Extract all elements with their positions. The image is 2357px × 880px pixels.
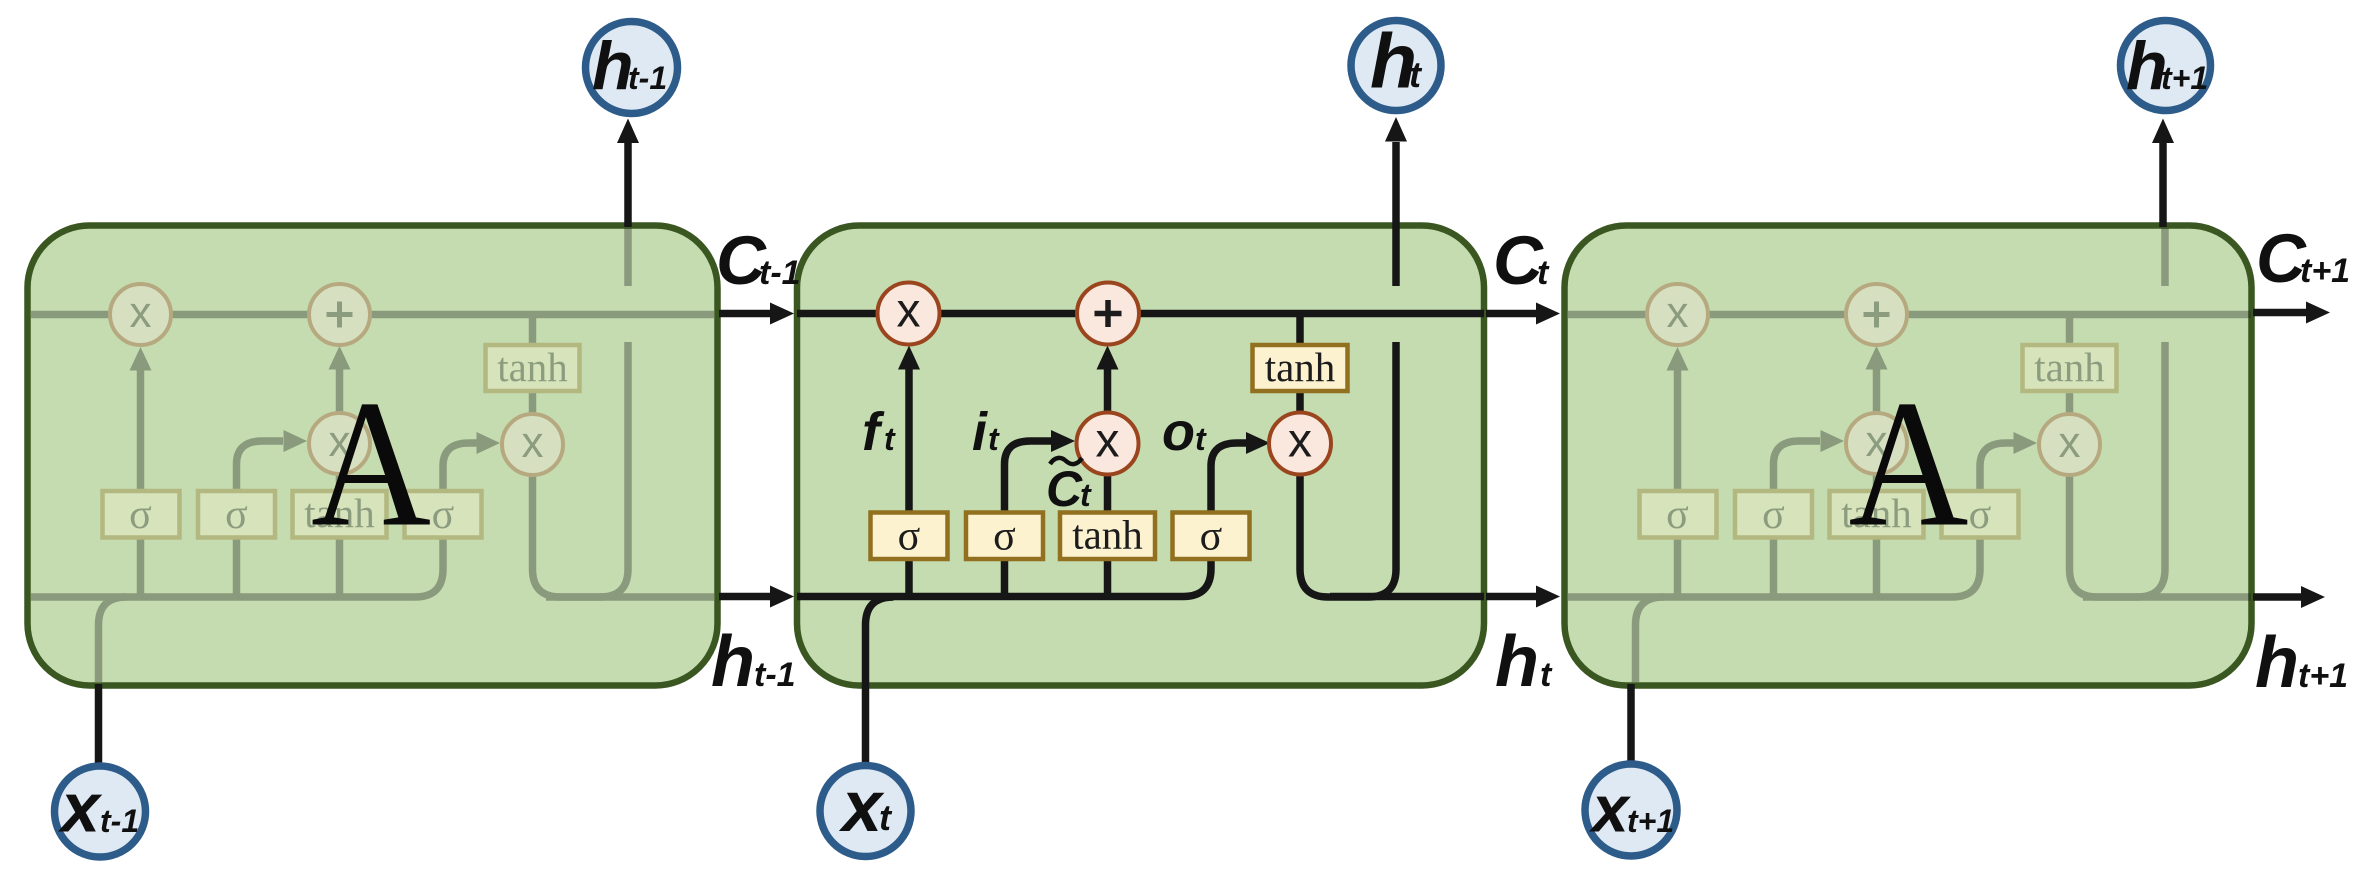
svg-text:t: t xyxy=(884,421,896,457)
svg-text:t: t xyxy=(1080,477,1092,513)
svg-text:t+1: t+1 xyxy=(2161,60,2208,96)
wire h_t+1 rise arrow above right cell xyxy=(2159,143,2167,227)
faded internals right cell xyxy=(1568,228,2251,682)
svg-text:o: o xyxy=(1162,402,1195,462)
svg-text:x: x xyxy=(838,767,885,847)
svg-text:C: C xyxy=(1046,461,1083,517)
svg-text:t+1: t+1 xyxy=(2298,657,2348,695)
svg-text:t: t xyxy=(1195,421,1207,457)
wire output gate curve arrow o xyxy=(1211,443,1246,511)
svg-text:h: h xyxy=(711,622,755,702)
wire C arrow gap1 xyxy=(719,310,771,318)
cell block A t+1 xyxy=(1565,226,2252,686)
svg-text:σ: σ xyxy=(993,514,1016,560)
svg-text:t: t xyxy=(879,797,893,838)
svg-text:x: x xyxy=(897,285,921,338)
svg-text:t-1: t-1 xyxy=(628,60,667,96)
svg-text:σ: σ xyxy=(1200,514,1223,560)
svg-text:A: A xyxy=(1849,364,1969,565)
wire x_t-1 stub below left cell xyxy=(95,684,103,766)
node x_t+1 xyxy=(1585,764,1677,856)
wire h arrow gap2 xyxy=(1486,593,1537,601)
op plus c xyxy=(1077,283,1139,345)
wire h arrow gap1 xyxy=(719,593,771,601)
svg-text:h: h xyxy=(1495,622,1539,702)
svg-text:x: x xyxy=(1288,415,1312,468)
box sigma4 c xyxy=(1173,513,1250,560)
svg-text:tanh: tanh xyxy=(1072,512,1143,558)
cell block center xyxy=(797,226,1484,686)
wire forget gate arrow f xyxy=(905,362,913,511)
wire x_t input rise xyxy=(866,597,894,763)
cell block A t-1 xyxy=(28,226,718,686)
svg-text:t: t xyxy=(1540,656,1553,694)
svg-text:x: x xyxy=(1589,772,1631,846)
svg-text:t-1: t-1 xyxy=(759,254,801,292)
svg-text:x: x xyxy=(57,769,103,847)
wire x_t+1 stub below right cell xyxy=(1627,684,1635,761)
svg-text:A: A xyxy=(311,364,431,565)
wire C to tanh-top c xyxy=(1296,314,1304,345)
node h_t xyxy=(1351,21,1441,111)
wire h_t+1 exit arrow xyxy=(2253,593,2302,601)
faded internals left cell xyxy=(31,228,714,682)
svg-text:x: x xyxy=(1096,415,1120,468)
svg-text:t+1: t+1 xyxy=(1627,803,1674,839)
wire output U center xyxy=(1300,342,1396,597)
op x1 c xyxy=(878,283,940,345)
svg-text:tanh: tanh xyxy=(1265,344,1336,390)
wire C_t+1 exit arrow xyxy=(2253,309,2307,317)
wire h-line right exit center xyxy=(1330,593,1484,601)
node x_t xyxy=(820,766,911,857)
svg-text:σ: σ xyxy=(898,514,921,560)
wire C arrow gap2 xyxy=(1486,310,1537,318)
wire tanh-top to right-x c xyxy=(1296,392,1304,415)
wire stub below tanh-row c xyxy=(1104,560,1112,597)
node h_t+1 xyxy=(2121,21,2211,111)
wire input gate curve arrow i xyxy=(1005,441,1052,511)
op mid-x c xyxy=(1077,413,1139,475)
box sigma1 c xyxy=(871,513,948,560)
wire mid-x to plus arrow c xyxy=(1104,366,1112,414)
svg-text:t-1: t-1 xyxy=(100,803,139,839)
wire tanh-row to mid-x c xyxy=(1104,473,1112,511)
svg-text:t: t xyxy=(1409,54,1423,95)
box tanh-row c xyxy=(1060,513,1155,560)
svg-text:t-1: t-1 xyxy=(754,656,796,694)
node h_t-1 xyxy=(586,22,678,114)
wire h_t-1 rise arrow above left cell xyxy=(624,143,632,227)
svg-text:t: t xyxy=(988,421,1000,457)
wire C-line center xyxy=(797,310,1484,318)
op right-x c xyxy=(1269,413,1331,475)
svg-text:t: t xyxy=(1537,254,1550,292)
wire h_t rise and arrow xyxy=(1392,142,1400,286)
box sigma2 c xyxy=(966,513,1043,560)
svg-text:h: h xyxy=(2255,623,2299,703)
svg-text:i: i xyxy=(972,402,988,462)
node x_t-1 xyxy=(55,766,146,857)
svg-text:t+1: t+1 xyxy=(2300,252,2350,290)
wire stub below sigma1 c xyxy=(905,560,913,597)
box tanh-top c xyxy=(1253,345,1348,391)
wire stub below sigma2 c xyxy=(1001,560,1009,597)
wire h-line center with curve into sigma4 xyxy=(797,560,1211,597)
